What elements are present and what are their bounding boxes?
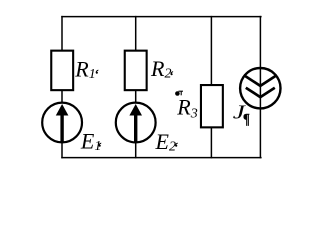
current source J — [240, 68, 280, 108]
resistor R1 — [51, 51, 73, 91]
svg-text:‘: ‘ — [97, 141, 102, 156]
svg-text:R1: R1 — [74, 56, 95, 82]
svg-text:R3: R3 — [176, 94, 197, 121]
svg-text:¶: ¶ — [243, 111, 250, 127]
wire R1-E1 lead — [61, 91, 63, 104]
svg-text:‘: ‘ — [94, 68, 99, 83]
anchor mark near R3 — [175, 91, 183, 96]
resistor R3 — [201, 85, 223, 127]
wire R2 top lead — [135, 16, 137, 51]
emf source E1 — [42, 103, 82, 143]
emf source E2 — [116, 103, 156, 143]
wire R1 top lead — [61, 16, 63, 51]
resistor R2 — [125, 51, 147, 91]
wire E1 bottom lead — [61, 142, 63, 158]
wire E2 bottom lead — [135, 142, 137, 158]
svg-text:‘: ‘ — [169, 70, 174, 85]
wire top bus — [61, 16, 261, 18]
wire R2-E2 lead — [135, 91, 137, 104]
wire J branch — [259, 16, 261, 158]
wire R3 top lead — [210, 16, 212, 85]
wire R3 bottom lead — [210, 128, 212, 159]
wire bottom bus — [61, 157, 261, 159]
svg-text:‘: ‘ — [173, 141, 178, 156]
